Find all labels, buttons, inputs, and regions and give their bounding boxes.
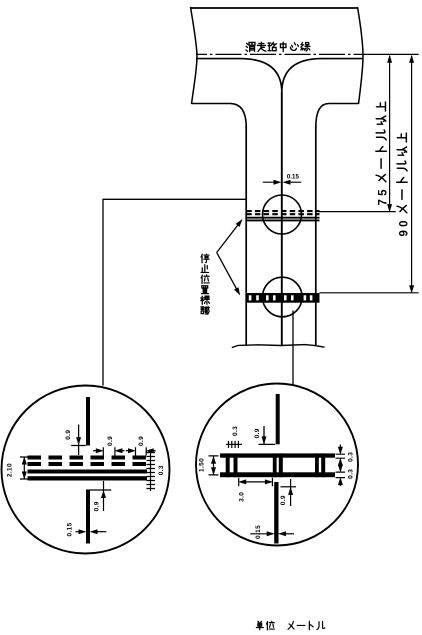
runway centerline (dash-dot)	[196, 53, 363, 55]
svg-text:90: 90	[398, 217, 410, 236]
right detail: 3.0 dimension	[239, 478, 273, 487]
right detail circle outline	[196, 384, 358, 546]
right detail: ladder top bar	[220, 453, 335, 457]
leader arrow to marking A	[217, 222, 241, 253]
right detail: 0.3 dimension top bar right	[339, 445, 341, 449]
right detail: lower centerline bar	[274, 482, 278, 544]
left detail: 0.9 dimension top center	[78, 425, 80, 456]
left detail: 0.3 hatch ruler at right	[147, 452, 156, 492]
unit note 単位 メートル	[256, 621, 325, 629]
right detail: 0.3 hatch top left	[226, 443, 242, 445]
90m dimension line	[411, 56, 413, 292]
svg-text:3.0: 3.0	[239, 492, 246, 502]
left detail: 0.9 dimension below marking	[90, 489, 111, 491]
taxiway centerline parallel segment on runway + fillet curves to cusp	[196, 59, 363, 93]
svg-text:0.3: 0.3	[348, 452, 355, 462]
extension line from marking A to 75m dimension	[318, 211, 396, 213]
left detail: solid line 1	[28, 470, 148, 474]
left detail: 0.9 dimension gap B	[126, 450, 131, 452]
svg-text:0.9: 0.9	[254, 428, 261, 438]
left detail: 0.3 text	[158, 465, 165, 475]
taxiway bottom break line	[232, 345, 325, 348]
marking B band: bottom bar	[246, 300, 319, 302]
label 滑走路中心線	[246, 42, 310, 51]
extension line from marking B to 90m dimension	[320, 292, 419, 294]
marking A dashed row 1	[246, 210, 319, 212]
right detail: 1.50 dimension	[213, 456, 215, 474]
svg-text:0.15: 0.15	[255, 525, 262, 539]
svg-text:0.9: 0.9	[138, 436, 145, 446]
runway left break edge	[191, 7, 198, 104]
marking A solid line 1	[246, 217, 319, 219]
left detail: upper centerline bar	[86, 397, 90, 446]
svg-text:2.10: 2.10	[6, 463, 13, 477]
label 75メートル以上 (rotated)	[376, 102, 390, 205]
marking A solid line 2	[246, 219, 319, 221]
left detail: 0.15 dimension at bottom	[76, 531, 85, 533]
svg-text:0.9: 0.9	[280, 495, 287, 505]
runway bottom edge left + pavement fillet	[192, 104, 247, 128]
svg-text:0.3: 0.3	[158, 465, 165, 475]
right detail: ladder bottom bar	[220, 472, 335, 477]
svg-text:0.15: 0.15	[287, 173, 300, 180]
svg-text:0.15: 0.15	[67, 522, 74, 536]
leader line from marking A area to left detail circle	[103, 199, 246, 385]
75m dimension line	[389, 56, 391, 211]
runway right break edge	[358, 7, 364, 104]
taxiway right edge	[315, 126, 317, 345]
left detail: 0.9 dimension gap A	[93, 450, 99, 452]
label 停止位置標識 (vertical)	[201, 254, 210, 314]
taxiway centerline vertical	[281, 92, 283, 345]
left detail: dashed row 1	[28, 456, 148, 460]
left detail circle outline	[2, 386, 170, 554]
right detail: 0.3 dimension bottom bar right	[339, 466, 341, 467]
left detail: solid line 2	[28, 476, 148, 480]
svg-text:0.9: 0.9	[94, 501, 101, 511]
left detail: 2.10 dimension	[23, 457, 25, 479]
svg-text:75: 75	[377, 186, 389, 205]
svg-text:0.9: 0.9	[107, 436, 114, 446]
runway bottom edge right + pavement fillet	[316, 104, 359, 128]
marking A dashed row 2	[246, 213, 319, 215]
right detail: ladder rungs	[226, 453, 326, 477]
svg-text:0.3: 0.3	[232, 426, 239, 436]
svg-text:0.9: 0.9	[65, 430, 72, 440]
svg-text:1.50: 1.50	[198, 458, 205, 472]
right detail: 0.15 dimension at bottom	[250, 533, 272, 535]
left detail: dashed row 2	[28, 462, 148, 466]
marking B band: top bar	[246, 293, 319, 295]
marking B band: rung row with gaps	[246, 295, 319, 301]
svg-text:0.3: 0.3	[348, 469, 355, 479]
right detail: 0.9 dimension below center	[281, 486, 297, 488]
leader arrow to marking B	[217, 253, 239, 292]
label 90メートル以上 (rotated)	[397, 133, 411, 236]
0.15 dimension: right arrow	[285, 181, 301, 183]
centerline extension line to dimensions	[363, 53, 419, 55]
left detail: lower centerline bar	[86, 490, 90, 544]
right detail: 0.9 dimension top center	[263, 426, 265, 444]
detail circle marker 2 (stop position marking B)	[263, 277, 303, 317]
taxiway left edge	[245, 126, 247, 345]
leader line from marking B circle to right detail circle	[292, 311, 294, 386]
detail circle marker 1 (holding position marking A)	[263, 195, 302, 234]
runway top edge	[191, 7, 358, 9]
0.15 dimension at taxiway centerline: left arrow	[263, 181, 279, 183]
right detail: upper centerline bar	[276, 394, 280, 444]
